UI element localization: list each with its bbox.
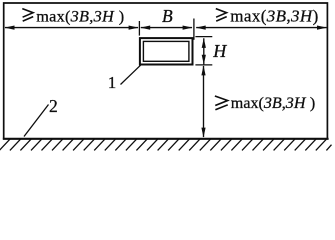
ground plane hatching <box>0 139 332 150</box>
extension line above unit right edge <box>193 19 195 40</box>
right clearance dimension line <box>196 27 326 29</box>
vertical clearance dimension line <box>203 66 205 137</box>
B dimension line <box>141 27 192 29</box>
leader line for item 1 <box>121 64 143 85</box>
svg-text:2: 2 <box>49 96 58 116</box>
svg-text:max(3B,3H): max(3B,3H) <box>231 95 315 112</box>
extension line above unit left edge <box>138 21 140 36</box>
label: bottom clearance >=max(3B,3H) <box>215 96 228 110</box>
unit under test: inner rectangle <box>143 41 189 61</box>
H dimension line <box>203 38 205 64</box>
label: right clearance >=max(3B,3H) <box>216 9 227 22</box>
svg-text:max(3B,3H): max(3B,3H) <box>230 7 318 26</box>
svg-text:1: 1 <box>108 73 117 92</box>
ground plane line <box>3 138 329 140</box>
svg-text:H: H <box>212 41 227 61</box>
left clearance dimension line <box>5 27 138 29</box>
leader line for item 2 <box>24 105 49 137</box>
unit under test: outer rectangle <box>140 38 193 64</box>
enclosure outline (test volume boundary) <box>4 3 328 139</box>
svg-text:max(3B,3H): max(3B,3H) <box>36 7 124 26</box>
svg-text:B: B <box>162 6 173 26</box>
label: left clearance >=max(3B,3H) <box>22 9 33 22</box>
extension tick for H top <box>195 36 212 38</box>
extension tick for H bottom <box>195 64 212 66</box>
